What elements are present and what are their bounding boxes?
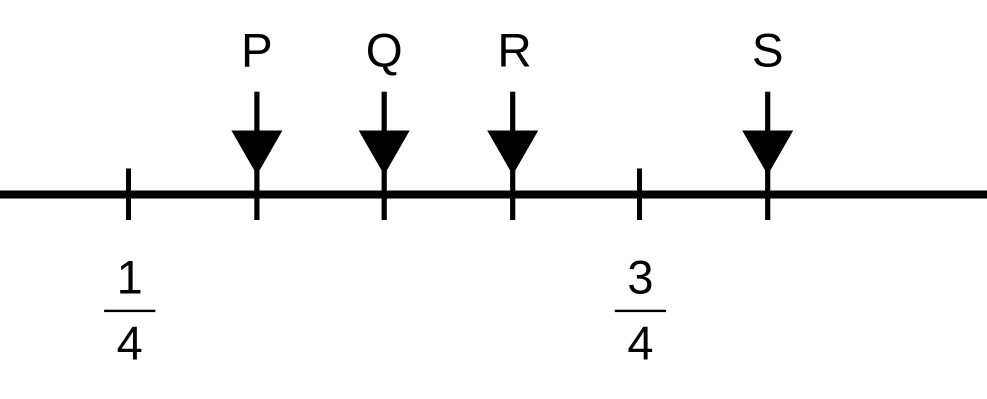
svg-text:S: S bbox=[752, 24, 784, 77]
point P arrow bbox=[231, 92, 282, 220]
fraction 3/4 bar bbox=[615, 310, 666, 312]
point S arrow bbox=[742, 92, 793, 220]
svg-text:1: 1 bbox=[117, 251, 143, 304]
svg-text:P: P bbox=[241, 24, 273, 77]
svg-text:R: R bbox=[497, 24, 531, 77]
point Q arrow bbox=[359, 92, 410, 220]
svg-text:Q: Q bbox=[366, 24, 403, 77]
tick 1/4 bbox=[126, 169, 131, 221]
point R arrow bbox=[487, 92, 538, 220]
svg-text:4: 4 bbox=[117, 316, 143, 369]
svg-text:3: 3 bbox=[627, 251, 653, 304]
fraction 1/4 bar bbox=[104, 310, 155, 312]
tick 3/4 bbox=[637, 169, 642, 221]
svg-text:4: 4 bbox=[627, 316, 653, 369]
number line bbox=[0, 191, 987, 199]
